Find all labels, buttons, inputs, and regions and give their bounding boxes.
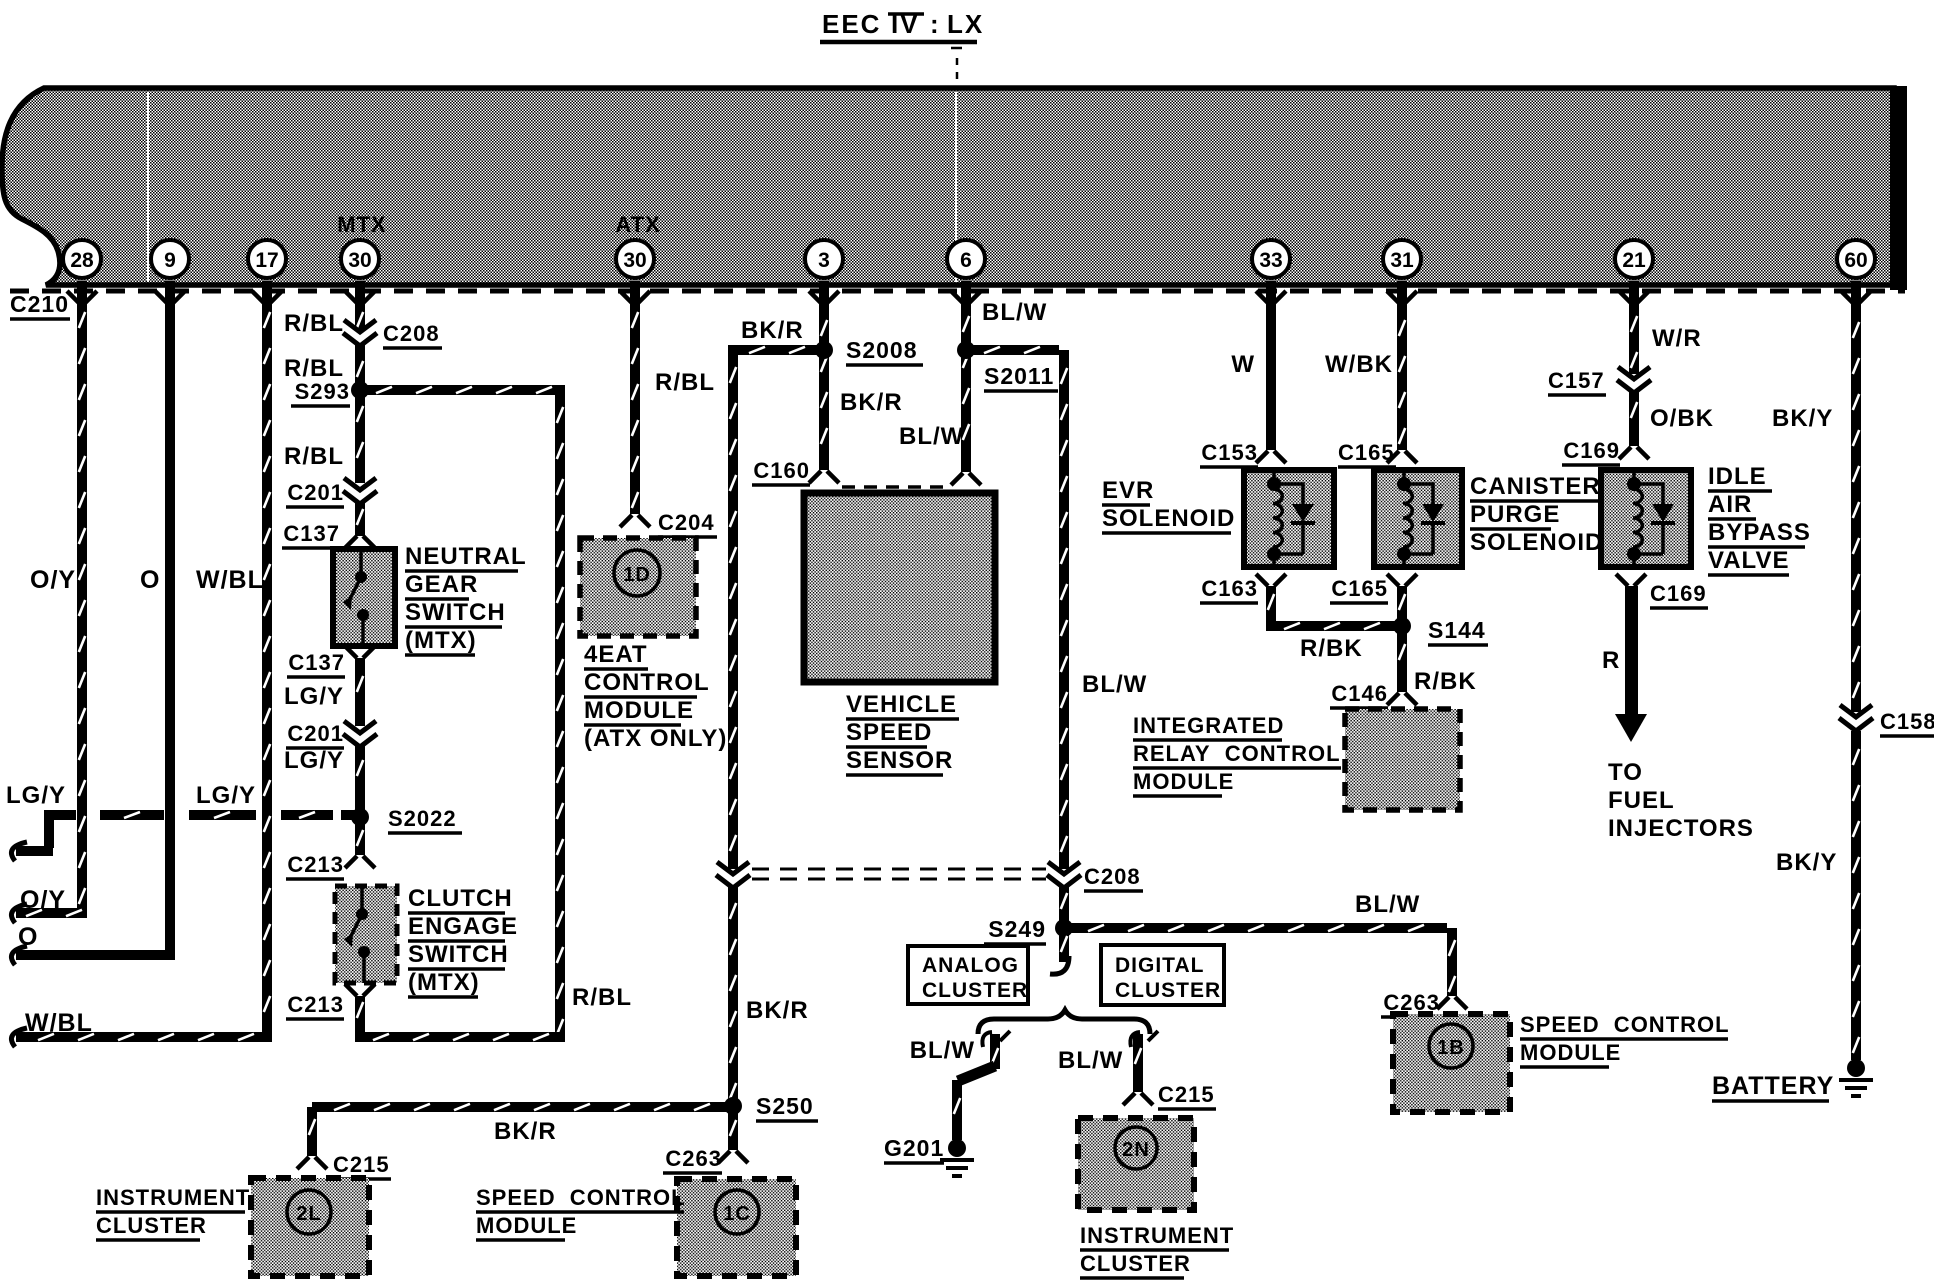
- circle 1B: [1429, 1024, 1473, 1068]
- svg-text:FUEL: FUEL: [1608, 787, 1675, 814]
- svg-text:BL/W: BL/W: [1058, 1047, 1123, 1074]
- wire O from pin 9: [165, 302, 175, 950]
- idle air bypass valve symbol: [1633, 470, 1675, 567]
- svg-text:C208: C208: [1084, 864, 1141, 889]
- wire stub at pin x=966: [961, 281, 971, 303]
- svg-text:BK/Y: BK/Y: [1776, 849, 1837, 876]
- wire stub at pin x=635: [630, 281, 640, 303]
- svg-text:LG/Y: LG/Y: [284, 683, 344, 710]
- wire R/BK S144 down: [1397, 632, 1407, 692]
- svg-text:31: 31: [1390, 249, 1414, 272]
- svg-text:R/BK: R/BK: [1300, 635, 1363, 662]
- EEC module right edge: [1890, 86, 1907, 290]
- wire BL/W vertical long: [1059, 350, 1069, 869]
- wire BL/W left cluster branch: [982, 1032, 992, 1047]
- svg-text:O: O: [140, 566, 160, 594]
- splice S249: [1055, 919, 1073, 937]
- svg-text:EVR: EVR: [1102, 477, 1154, 504]
- connector C204: [620, 515, 650, 527]
- svg-text:AIR: AIR: [1708, 491, 1752, 518]
- wire BL/W pin 6: [961, 302, 971, 472]
- svg-text:S250: S250: [756, 1093, 814, 1119]
- arrow to fuel injectors: [1625, 586, 1638, 716]
- svg-text:O/BK: O/BK: [1650, 405, 1714, 432]
- svg-text:NEUTRAL: NEUTRAL: [405, 543, 527, 570]
- splice S2008: [815, 341, 833, 359]
- svg-text:MODULE: MODULE: [584, 697, 694, 724]
- svg-text:SOLENOID: SOLENOID: [1470, 529, 1603, 556]
- svg-text:IDLE: IDLE: [1708, 463, 1767, 490]
- wire stub at pin x=82: [77, 281, 87, 303]
- svg-text:LX: LX: [947, 9, 984, 39]
- svg-text:CLUSTER: CLUSTER: [1115, 979, 1221, 1002]
- svg-text:17: 17: [255, 249, 278, 272]
- wire O/Y from pin 28: [77, 302, 87, 908]
- svg-text:W/BL: W/BL: [196, 566, 264, 594]
- connector C165 bottom: [1387, 574, 1417, 586]
- svg-text:9: 9: [164, 249, 176, 272]
- wire BL/W right cluster branch: [1130, 1032, 1140, 1047]
- wire R/BL pin 30 ATX: [630, 302, 640, 514]
- wire stub at pin x=360: [355, 281, 365, 303]
- svg-text:CLUTCH: CLUTCH: [408, 885, 513, 912]
- svg-text:DIGITAL: DIGITAL: [1115, 954, 1204, 977]
- connector at VSS right: [951, 473, 981, 485]
- svg-text:CONTROL: CONTROL: [584, 669, 710, 696]
- svg-text:33: 33: [1259, 249, 1282, 272]
- wire R/BL pin 30 MTX upper: [355, 302, 365, 329]
- svg-text:R/BL: R/BL: [284, 443, 344, 470]
- connector C215 left: [297, 1157, 327, 1169]
- svg-text:S293: S293: [295, 379, 350, 404]
- svg-text:C169: C169: [1563, 438, 1620, 463]
- svg-text:C160: C160: [753, 458, 810, 483]
- circle 2L: [287, 1190, 331, 1234]
- connector C263 left: [718, 1151, 748, 1163]
- svg-text:SPEED: SPEED: [846, 719, 932, 746]
- svg-text:4EAT: 4EAT: [584, 641, 648, 668]
- arrow end O/Y wire: [11, 904, 27, 923]
- svg-text:ATX: ATX: [615, 212, 660, 237]
- svg-text:C137: C137: [283, 521, 340, 546]
- wire BK/R elbow to S2008: [733, 345, 818, 355]
- wire W/BK pin 31: [1397, 302, 1407, 450]
- connector C169 bottom: [1616, 574, 1646, 586]
- wire O/BK: [1629, 392, 1639, 446]
- svg-text:W: W: [1231, 351, 1255, 378]
- svg-text:LG/Y: LG/Y: [284, 747, 344, 774]
- loop wire right vertical: [555, 385, 565, 1042]
- pin 9: [151, 240, 189, 278]
- arrow end LG/Y wire: [11, 842, 27, 861]
- neutral gear switch box: [333, 549, 395, 646]
- pin 60: [1837, 240, 1875, 278]
- svg-text:R/BK: R/BK: [1414, 668, 1477, 695]
- wire stub at pin x=170: [165, 281, 175, 303]
- svg-text:RELAY CONTROL: RELAY CONTROL: [1133, 741, 1341, 766]
- splice S144: [1393, 617, 1411, 635]
- svg-text:W/BL: W/BL: [25, 1009, 93, 1037]
- svg-text:EEC: EEC: [822, 9, 881, 39]
- connector C208 right half: [1047, 862, 1081, 888]
- svg-text:ENGAGE: ENGAGE: [408, 913, 518, 940]
- connector C158: [1839, 705, 1873, 731]
- integrated relay control module box: [1345, 709, 1460, 810]
- svg-text:BATTERY: BATTERY: [1712, 1072, 1834, 1100]
- svg-text:28: 28: [70, 249, 94, 272]
- svg-text:S2011: S2011: [984, 363, 1054, 389]
- clutch engage switch box: [335, 886, 397, 983]
- pin 33: [1252, 240, 1290, 278]
- svg-text:BL/W: BL/W: [910, 1037, 975, 1064]
- connector C201 lower: [343, 721, 377, 747]
- splice S2011: [957, 341, 975, 359]
- EEC module band: [2, 88, 1894, 285]
- svg-text:C169: C169: [1650, 581, 1707, 606]
- connector C153: [1256, 451, 1286, 463]
- connector C157: [1617, 367, 1651, 393]
- svg-text:INTEGRATED: INTEGRATED: [1133, 713, 1284, 738]
- wire LG/Y below switch: [355, 658, 365, 726]
- svg-text:PURGE: PURGE: [1470, 501, 1560, 528]
- wire LG/Y dashed to S2022: [44, 810, 76, 820]
- pin 6: [947, 240, 985, 278]
- svg-text:GEAR: GEAR: [405, 571, 478, 598]
- neutral gear switch symbol: [349, 549, 363, 646]
- svg-text:C158: C158: [1880, 709, 1934, 734]
- svg-text:BL/W: BL/W: [1082, 671, 1147, 698]
- connector C215 right: [1123, 1093, 1153, 1105]
- svg-text:C137: C137: [288, 650, 345, 675]
- digital cluster box: [1101, 945, 1224, 1005]
- svg-text:C157: C157: [1548, 368, 1605, 393]
- wire C201 to C137: [355, 503, 365, 536]
- canister purge solenoid symbol: [1403, 470, 1445, 567]
- connector C208 left half: [716, 862, 750, 888]
- wire stub at pin x=1634: [1629, 281, 1639, 303]
- band scan artifact lines: [147, 92, 149, 282]
- wire BK/R vertical long: [728, 345, 738, 869]
- svg-text:(ATX ONLY): (ATX ONLY): [584, 725, 727, 752]
- svg-text:CLUSTER: CLUSTER: [96, 1213, 207, 1238]
- wire S249 stub down with hook: [1059, 934, 1069, 962]
- svg-text:BL/W: BL/W: [1355, 891, 1420, 918]
- svg-text:R/BL: R/BL: [655, 369, 715, 396]
- svg-text:W/BK: W/BK: [1325, 351, 1393, 378]
- wire stub at pin x=824: [819, 281, 829, 303]
- wire BL/W S249 to right: [1070, 923, 1447, 933]
- svg-text:3: 3: [818, 249, 830, 272]
- svg-text:CLUSTER: CLUSTER: [1080, 1251, 1191, 1276]
- splice S293: [351, 381, 369, 399]
- wire stub at pin x=1856: [1851, 281, 1861, 303]
- svg-text:VEHICLE: VEHICLE: [846, 691, 957, 718]
- svg-text:G201: G201: [884, 1135, 944, 1161]
- wire BK/Y lower: [1851, 731, 1861, 1060]
- svg-text:R/BL: R/BL: [572, 984, 632, 1011]
- pin 30 MTX: [341, 240, 379, 278]
- svg-text:C146: C146: [1331, 681, 1388, 706]
- speed control module 1B box: [1393, 1014, 1510, 1112]
- EVR solenoid box: [1244, 470, 1334, 567]
- wire S293 branch to loop right: [366, 385, 555, 395]
- svg-text:TO: TO: [1608, 759, 1643, 786]
- wire elbow down to C215: [307, 1107, 317, 1156]
- svg-text:BL/W: BL/W: [899, 423, 964, 450]
- svg-text:2N: 2N: [1122, 1139, 1150, 1161]
- wire BK/R below C208: [728, 887, 738, 1101]
- wire S2022 to C213: [355, 822, 365, 855]
- svg-text:CANISTER: CANISTER: [1470, 473, 1601, 500]
- svg-text:O: O: [18, 923, 38, 951]
- svg-text:1C: 1C: [723, 1203, 751, 1225]
- svg-text:30: 30: [623, 249, 646, 272]
- wire R/BL C208 to S293: [355, 345, 365, 385]
- svg-text:60: 60: [1844, 249, 1867, 272]
- wire S250 to C263: [728, 1112, 738, 1150]
- wire stub at pin x=1271: [1266, 281, 1276, 303]
- svg-text:SWITCH: SWITCH: [408, 941, 509, 968]
- svg-text:LG/Y: LG/Y: [196, 782, 256, 809]
- connector C163: [1256, 574, 1286, 586]
- svg-text:C201: C201: [287, 480, 344, 505]
- svg-text:BK/R: BK/R: [840, 389, 903, 416]
- circle 2N: [1115, 1127, 1157, 1169]
- pin 28: [63, 240, 101, 278]
- clutch engage switch symbol: [350, 886, 364, 983]
- svg-text:1D: 1D: [623, 564, 651, 586]
- svg-text:21: 21: [1622, 249, 1646, 272]
- svg-text:R/BL: R/BL: [284, 355, 344, 382]
- svg-text:C210: C210: [10, 291, 69, 317]
- svg-text:MODULE: MODULE: [1520, 1040, 1621, 1065]
- splice S2022: [351, 808, 369, 826]
- svg-text:30: 30: [348, 249, 371, 272]
- connector C146: [1387, 693, 1417, 705]
- svg-text:ANALOG: ANALOG: [922, 954, 1019, 977]
- wire stub at pin x=1402: [1397, 281, 1407, 303]
- svg-text:BK/Y: BK/Y: [1772, 405, 1833, 432]
- svg-text:SENSOR: SENSOR: [846, 747, 953, 774]
- connector C213 top: [345, 856, 375, 868]
- connector C208 inline: [343, 320, 377, 346]
- connector C213 bottom: [345, 984, 375, 996]
- ground G201: [948, 1139, 966, 1157]
- svg-text:C213: C213: [287, 852, 344, 877]
- svg-text:BL/W: BL/W: [982, 299, 1047, 326]
- wire W/BL from pin 17: [262, 302, 272, 1032]
- wire W pin 33: [1266, 302, 1276, 450]
- svg-text:C153: C153: [1201, 440, 1258, 465]
- svg-text:R: R: [1602, 647, 1620, 674]
- svg-text:6: 6: [960, 249, 972, 272]
- svg-text:SWITCH: SWITCH: [405, 599, 506, 626]
- svg-text:SPEED CONTROL: SPEED CONTROL: [476, 1185, 686, 1210]
- svg-text:MTX: MTX: [337, 212, 386, 237]
- svg-text:C215: C215: [1158, 1082, 1215, 1107]
- brace: [978, 1010, 1150, 1034]
- svg-text:VALVE: VALVE: [1708, 547, 1789, 574]
- svg-text:2L: 2L: [296, 1203, 321, 1225]
- svg-text:C215: C215: [333, 1152, 390, 1177]
- connector C137 bottom: [345, 646, 375, 658]
- svg-text:MODULE: MODULE: [1133, 769, 1234, 794]
- connector C169: [1619, 447, 1649, 459]
- idle air bypass valve box: [1601, 470, 1691, 567]
- svg-text:SPEED CONTROL: SPEED CONTROL: [1520, 1012, 1730, 1037]
- svg-text:C165: C165: [1331, 576, 1388, 601]
- svg-text:1B: 1B: [1437, 1037, 1465, 1059]
- svg-text:INSTRUMENT: INSTRUMENT: [96, 1185, 250, 1210]
- svg-text:O/Y: O/Y: [20, 886, 66, 914]
- circle 1D: [614, 550, 660, 596]
- wire C165 to S144: [1397, 586, 1407, 621]
- svg-text:R/BL: R/BL: [284, 310, 344, 337]
- svg-text:CLUSTER: CLUSTER: [922, 979, 1028, 1002]
- vehicle speed sensor box: [804, 493, 995, 682]
- svg-text:SOLENOID: SOLENOID: [1102, 505, 1235, 532]
- svg-text:BK/R: BK/R: [494, 1118, 557, 1145]
- svg-text:LG/Y: LG/Y: [6, 782, 66, 809]
- pin 31: [1383, 240, 1421, 278]
- svg-text:BK/R: BK/R: [746, 997, 809, 1024]
- svg-text:C165: C165: [1338, 440, 1395, 465]
- pin 30 ATX: [616, 240, 654, 278]
- analog cluster box: [908, 946, 1028, 1004]
- canister purge solenoid box: [1374, 470, 1462, 567]
- svg-text:INJECTORS: INJECTORS: [1608, 815, 1754, 842]
- svg-text:C208: C208: [383, 321, 440, 346]
- svg-text:INSTRUMENT: INSTRUMENT: [1080, 1223, 1234, 1248]
- arrow end O wire: [11, 946, 27, 965]
- wire W/R pin 21: [1629, 302, 1639, 374]
- arrow end W/BL wire: [11, 1028, 27, 1047]
- battery ground: [1847, 1059, 1865, 1077]
- 4EAT control module box: [580, 538, 696, 636]
- pin 17: [248, 240, 286, 278]
- splice S250: [724, 1097, 742, 1115]
- EVR solenoid symbol: [1273, 470, 1315, 567]
- wire R/BK from C163 to S144: [1266, 586, 1276, 621]
- instrument cluster 2L box: [251, 1178, 369, 1276]
- svg-text:S144: S144: [1428, 617, 1486, 643]
- wire BL/W S2011 to right: [972, 345, 1059, 355]
- svg-text:C201: C201: [287, 721, 344, 746]
- connector C210 dashed line: [10, 289, 1905, 294]
- connector C201: [343, 478, 377, 504]
- instrument cluster 2N box: [1078, 1118, 1194, 1210]
- svg-text:S2008: S2008: [846, 337, 918, 363]
- speed control module 1C box: [677, 1179, 796, 1276]
- wire R/BL S293 down: [355, 396, 365, 483]
- wire clutch switch to loop: [355, 996, 365, 1032]
- svg-text:W/R: W/R: [1652, 325, 1702, 352]
- wire stub at pin x=267: [262, 281, 272, 303]
- svg-text:C204: C204: [658, 510, 715, 535]
- VSS connector dashed line: [842, 485, 950, 489]
- svg-text:C263: C263: [665, 1146, 722, 1171]
- svg-text:(MTX): (MTX): [408, 969, 480, 996]
- wire LG/Y C201 to S2022: [355, 746, 365, 812]
- wire BL/W to S249: [1059, 887, 1069, 923]
- svg-text:(MTX): (MTX): [405, 627, 477, 654]
- wire down to C263 right: [1447, 928, 1457, 996]
- wire BK/R horizontal into S250: [312, 1102, 728, 1112]
- wire BK/Y pin 60 upper: [1851, 302, 1861, 712]
- svg-text:BYPASS: BYPASS: [1708, 519, 1811, 546]
- circle 1C: [715, 1190, 759, 1234]
- svg-text:BK/R: BK/R: [741, 317, 804, 344]
- svg-text:O/Y: O/Y: [30, 566, 76, 594]
- svg-text:C213: C213: [287, 992, 344, 1017]
- svg-text:C163: C163: [1201, 576, 1258, 601]
- svg-text:MODULE: MODULE: [476, 1213, 577, 1238]
- svg-text:S249: S249: [988, 916, 1046, 942]
- svg-text:S2022: S2022: [388, 806, 457, 831]
- wire BK/R pin 3: [819, 302, 829, 470]
- connector C165: [1387, 451, 1417, 463]
- pin 21: [1615, 240, 1653, 278]
- connector C137 top: [345, 536, 375, 548]
- pin 3: [805, 240, 843, 278]
- C208 double dashed link: [752, 868, 1046, 871]
- connector C160: [809, 471, 839, 483]
- svg-text::: :: [930, 9, 941, 39]
- connector C263 right: [1437, 997, 1467, 1009]
